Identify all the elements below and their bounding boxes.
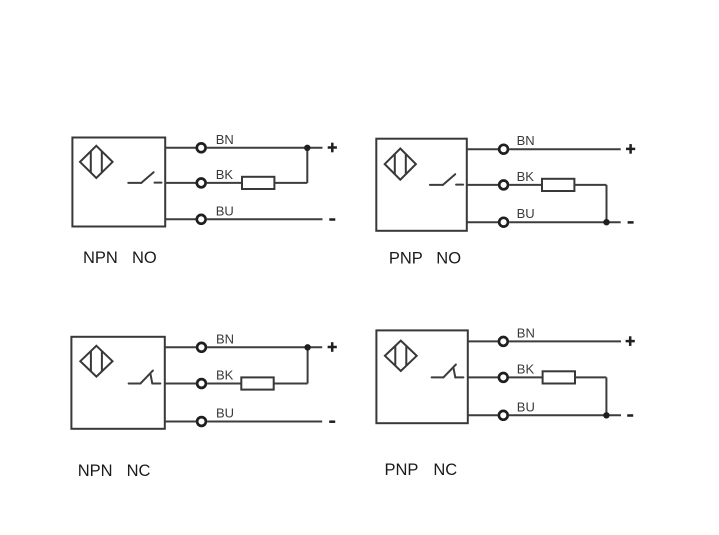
wire: PNP-NC BK from resistor to branch xyxy=(575,376,606,378)
PNP-NC resistor RL: load resistor xyxy=(543,371,575,383)
wire: PNP-NC BN from terminal to supply + xyxy=(509,340,621,342)
NPN-NC BN: terminal circle xyxy=(197,343,206,352)
NPN-NO sensor body box xyxy=(72,138,165,227)
svg-text:BK: BK xyxy=(216,167,234,182)
NPN-NO: proximity sensor diamond symbol xyxy=(80,146,113,178)
wire: PNP-NC BU from box to terminal xyxy=(468,414,498,416)
svg-text:PNP: PNP xyxy=(385,461,419,479)
svg-text:NC: NC xyxy=(433,461,457,479)
svg-text:PNP: PNP xyxy=(389,249,423,267)
PNP-NO sensor body box xyxy=(376,139,467,231)
PNP-NC: proximity sensor diamond symbol xyxy=(385,341,417,371)
PNP-NO BU: terminal circle xyxy=(499,218,508,227)
svg-text:BK: BK xyxy=(216,368,234,383)
PNP-NC BN: terminal circle xyxy=(499,337,508,346)
wire: NPN-NO BN from box to terminal xyxy=(165,147,195,149)
wire: NPN-NO BN from terminal to supply + xyxy=(207,147,323,149)
svg-text:BU: BU xyxy=(216,406,234,421)
wire: PNP-NO BU from terminal to supply - xyxy=(509,221,621,223)
wire: PNP-NO BN from box to terminal xyxy=(467,148,498,150)
NPN-NO resistor RL: load resistor xyxy=(242,177,274,189)
PNP-NO BN: terminal circle xyxy=(499,145,508,154)
PNP-NO: proximity sensor diamond symbol xyxy=(385,149,416,180)
wire: PNP-NO BK from resistor to branch xyxy=(574,184,606,186)
wire: PNP-NC BU from terminal to supply - xyxy=(509,414,621,416)
svg-text:BU: BU xyxy=(216,203,234,218)
svg-text:BN: BN xyxy=(517,133,535,148)
junction dot: PNP-NC branch joins BU xyxy=(603,412,609,418)
wire: NPN-NC BK from box to terminal xyxy=(165,383,196,385)
wire: NPN-NC BN from terminal to supply + xyxy=(207,346,322,348)
wire: NPN-NO BK from resistor to branch xyxy=(274,182,307,184)
svg-text:BK: BK xyxy=(517,361,535,376)
svg-text:NPN: NPN xyxy=(78,462,113,480)
wire: NPN-NC BN from box to terminal xyxy=(165,346,196,348)
NPN-NC sensor body box xyxy=(71,337,164,429)
NPN-NC BU: terminal circle xyxy=(197,417,206,426)
NPN-NO -: minus polarity symbol xyxy=(329,218,335,221)
svg-text:BU: BU xyxy=(517,399,535,414)
PNP-NO resistor RL: load resistor xyxy=(542,179,574,191)
NPN-NC -: minus polarity symbol xyxy=(329,420,335,423)
NPN-NC +: plus polarity symbol xyxy=(328,342,337,352)
wire: PNP-NC BK from terminal to resistor xyxy=(509,376,543,378)
junction dot: PNP-NO branch joins BU xyxy=(603,219,609,225)
PNP-NC -: minus polarity symbol xyxy=(627,414,633,417)
svg-text:NPN: NPN xyxy=(83,249,118,267)
PNP-NC BK: terminal circle xyxy=(499,373,508,382)
junction dot: NPN-NC branch joins BN xyxy=(304,344,310,350)
wire: NPN-NO branch from BK resistor up to BN xyxy=(306,148,308,183)
NPN-NC: NC contact switch symbol xyxy=(129,371,161,384)
wire: PNP-NC BK from box to terminal xyxy=(468,376,498,378)
wire: PNP-NO branch from BK resistor down to BU xyxy=(606,185,608,222)
svg-text:NO: NO xyxy=(132,249,157,267)
svg-text:BN: BN xyxy=(517,325,535,340)
wire: NPN-NO BK from terminal to resistor xyxy=(207,182,242,184)
NPN-NO BK: terminal circle xyxy=(197,179,206,188)
PNP-NC BU: terminal circle xyxy=(499,411,508,420)
svg-text:BU: BU xyxy=(517,206,535,221)
NPN-NC resistor RL: load resistor xyxy=(241,377,273,389)
NPN-NO +: plus polarity symbol xyxy=(328,143,337,153)
wire: NPN-NC BK from terminal to resistor xyxy=(207,383,241,385)
wire: NPN-NO BU from terminal to supply - xyxy=(207,218,323,220)
NPN-NC: proximity sensor diamond symbol xyxy=(80,346,112,377)
svg-text:BN: BN xyxy=(216,331,234,346)
wire: NPN-NO BU from box to terminal xyxy=(165,218,195,220)
svg-text:BN: BN xyxy=(216,132,234,147)
PNP-NC +: plus polarity symbol xyxy=(626,336,635,346)
wire: NPN-NC BU from terminal to supply - xyxy=(207,421,322,423)
PNP-NO BK: terminal circle xyxy=(499,181,508,190)
wire: PNP-NO BN from terminal to supply + xyxy=(509,148,621,150)
svg-text:NC: NC xyxy=(127,462,151,480)
svg-text:NO: NO xyxy=(436,249,461,267)
PNP-NO: NO contact switch symbol xyxy=(430,174,463,185)
wire: NPN-NC BK from resistor to branch xyxy=(274,383,308,385)
wire: NPN-NO BK from box to terminal xyxy=(165,182,195,184)
NPN-NO: NO contact switch symbol xyxy=(128,172,161,183)
PNP-NC sensor body box xyxy=(376,330,467,423)
PNP-NO -: minus polarity symbol xyxy=(628,221,634,224)
NPN-NO BN: terminal circle xyxy=(197,143,206,152)
PNP-NO +: plus polarity symbol xyxy=(626,144,635,154)
PNP-NC: NC contact switch symbol xyxy=(432,365,464,378)
wire: PNP-NC BN from box to terminal xyxy=(468,340,498,342)
svg-text:BK: BK xyxy=(517,169,535,184)
wire: NPN-NC branch from BK resistor up to BN xyxy=(307,347,309,383)
junction dot: NPN-NO branch joins BN xyxy=(304,145,310,151)
NPN-NO BU: terminal circle xyxy=(197,215,206,224)
NPN-NC BK: terminal circle xyxy=(197,379,206,388)
wire: NPN-NC BU from box to terminal xyxy=(165,421,196,423)
wire: PNP-NC branch from BK resistor down to BU xyxy=(605,377,607,415)
wire: PNP-NO BU from box to terminal xyxy=(467,221,498,223)
wire: PNP-NO BK from box to terminal xyxy=(467,184,498,186)
wire: PNP-NO BK from terminal to resistor xyxy=(509,184,542,186)
